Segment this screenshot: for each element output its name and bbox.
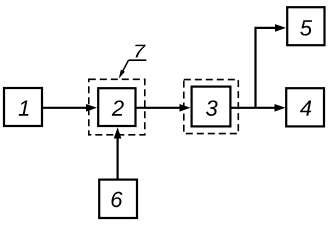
wire 6 to 2 bbox=[114, 127, 122, 178]
dashed boundary 7 around block 2 bbox=[89, 79, 145, 135]
wire 3 to 4 bbox=[232, 104, 286, 112]
wire junction to 5 bbox=[256, 24, 287, 108]
block 1 bbox=[4, 88, 42, 126]
block 4 bbox=[286, 88, 324, 126]
label 7 leader bbox=[119, 45, 147, 79]
wire 1 to 2 bbox=[43, 104, 97, 112]
block 3 bbox=[192, 87, 231, 127]
block 2 bbox=[98, 88, 135, 126]
block 6 bbox=[99, 180, 137, 218]
wire 2 to 3 bbox=[137, 104, 191, 112]
dashed boundary around block 3 bbox=[184, 80, 239, 134]
block 5 bbox=[287, 7, 324, 45]
